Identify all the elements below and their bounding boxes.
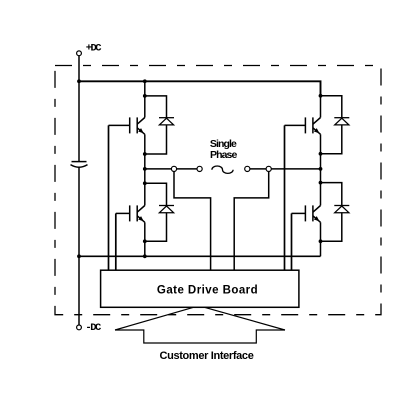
wire: D3 anode return to midpoint xyxy=(321,125,342,154)
wire: D1 anode return to midpoint xyxy=(145,125,167,154)
wire: gate Q3 to gate drive board xyxy=(284,125,286,270)
wire: left leg collector Q1 xyxy=(144,81,146,117)
wire: right leg midpoint xyxy=(320,134,322,205)
junction: right midpoint / phase output xyxy=(319,167,323,171)
dashed enclosure border xyxy=(55,66,381,315)
label: Customer Interface xyxy=(160,350,254,362)
wire: Q2 emitter to bottom bus xyxy=(144,222,146,256)
junction: midpoint / D1 return xyxy=(143,152,147,156)
+DC label xyxy=(86,42,103,54)
diode D3 xyxy=(334,118,349,125)
wire: top DC bus xyxy=(79,81,321,96)
terminal: phase output left outer xyxy=(197,166,202,171)
IGBT Q4 xyxy=(292,205,321,222)
IGBT Q1 xyxy=(109,117,145,134)
customer interface brace right slant xyxy=(205,307,286,330)
svg-text:Customer Interface: Customer Interface xyxy=(160,350,254,362)
wire: D2 anode return to emitter node xyxy=(145,212,167,241)
capacitor C1 xyxy=(71,162,88,168)
svg-text:+DC: +DC xyxy=(86,42,103,54)
junction: left rail / top bus xyxy=(77,79,81,83)
wire: terminal to terminal left xyxy=(177,168,197,170)
wire: terminal to terminal right xyxy=(250,168,266,170)
wire: left output tap to gate drive board xyxy=(174,172,211,271)
wire: left rail upper (bus to capacitor) xyxy=(78,81,80,161)
terminal: phase output left inner xyxy=(171,166,176,171)
junction: midpoint / D2 branch xyxy=(143,181,147,185)
+DC terminal xyxy=(77,51,82,56)
wire: branch to D3 xyxy=(321,96,342,118)
terminal: phase output right inner xyxy=(266,166,271,171)
wire: left rail lower (capacitor to bottom bus) xyxy=(78,167,80,256)
junction: Q4 emitter / D4 return xyxy=(319,239,323,243)
junction: left rail / bottom bus xyxy=(77,254,81,258)
svg-text:Gate Drive Board: Gate Drive Board xyxy=(157,285,258,297)
wire: branch to D1 xyxy=(145,96,167,118)
wire: right terminal to right leg xyxy=(271,168,320,170)
terminal: phase output right outer xyxy=(245,166,250,171)
customer interface brace left slant xyxy=(115,307,194,330)
gate drive board box xyxy=(101,270,299,307)
junction: bottom bus / left leg xyxy=(143,254,147,258)
wire: bottom DC bus xyxy=(79,255,321,257)
junction: right midpoint / D3 return xyxy=(319,152,323,156)
diode D2 xyxy=(159,206,174,213)
wire: right output tap to gate drive board xyxy=(234,172,269,271)
svg-text:Phase: Phase xyxy=(210,149,237,161)
wire: branch to D4 xyxy=(321,183,342,206)
junction: top bus / left leg xyxy=(143,79,147,83)
wire: +DC terminal to top bus xyxy=(78,56,80,82)
junction: Q3 collector / D3 branch xyxy=(319,94,323,98)
junction: right midpoint / D4 branch xyxy=(319,181,323,185)
wire: gate Q2 to gate drive board xyxy=(115,213,117,270)
junction: Q2 emitter / D2 return xyxy=(143,239,147,243)
wire: left leg midpoint xyxy=(144,134,146,205)
wire: left leg to terminal xyxy=(145,168,172,170)
wire: bottom bus to -DC terminal xyxy=(78,256,80,325)
AC source symbol (single phase) xyxy=(212,166,233,173)
label: Single Phase xyxy=(210,138,238,161)
wire: gate Q4 to gate drive board xyxy=(291,213,293,270)
junction: Q1 collector / D1 branch xyxy=(143,94,147,98)
wire: right leg collector Q3 xyxy=(320,96,322,118)
wire: D4 anode return to emitter node xyxy=(321,212,342,241)
customer interface bracket xyxy=(115,330,285,343)
diode D1 xyxy=(159,118,174,125)
IGBT Q3 xyxy=(285,117,321,134)
svg-text:-DC: -DC xyxy=(85,322,102,334)
diode D4 xyxy=(334,206,349,213)
label: Gate Drive Board xyxy=(157,285,258,297)
-DC label xyxy=(85,322,102,334)
wire: Q4 emitter to bottom bus xyxy=(320,222,322,256)
junction: midpoint / phase output left xyxy=(143,167,147,171)
-DC terminal xyxy=(77,325,82,330)
wire: branch to D2 xyxy=(145,183,167,205)
wire: gate Q1 to gate drive board xyxy=(108,125,110,270)
IGBT Q2 xyxy=(116,205,145,222)
